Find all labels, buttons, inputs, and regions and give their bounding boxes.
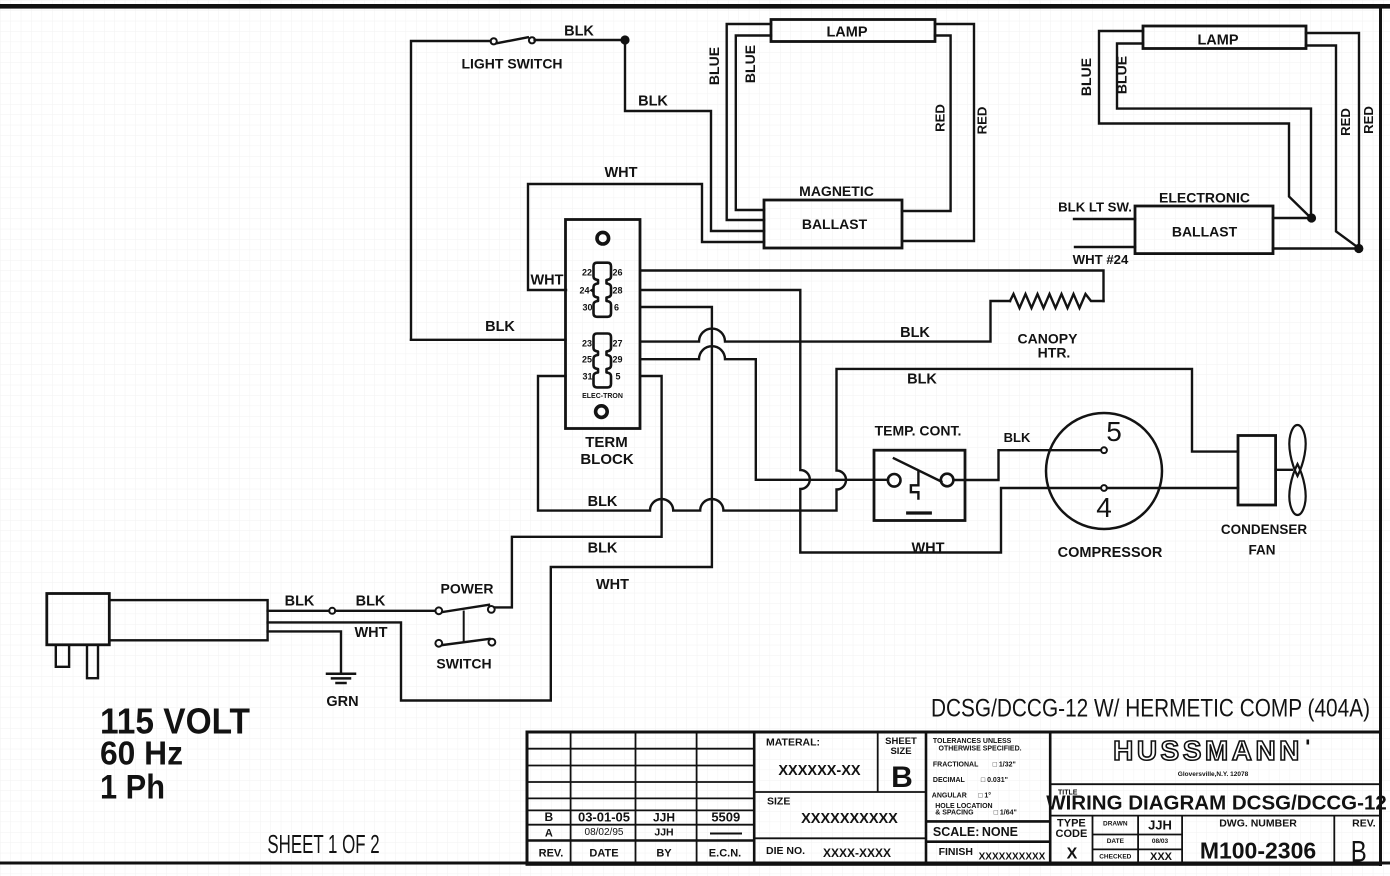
svg-text:BLK: BLK: [638, 94, 668, 110]
svg-text:4: 4: [1096, 492, 1112, 523]
wire electronic ballast to blue junction: [1273, 217, 1312, 219]
svg-text:WIRING DIAGRAM DCSG/DCCG-12: WIRING DIAGRAM DCSG/DCCG-12: [1046, 792, 1387, 815]
svg-text:OTHERWISE SPECIFIED.: OTHERWISE SPECIFIED.: [939, 746, 1022, 753]
compressor pin 5 terminal: [1101, 447, 1107, 453]
svg-text:FAN: FAN: [1249, 543, 1276, 558]
svg-text:SCALE:: SCALE:: [933, 825, 980, 839]
svg-text:27: 27: [613, 338, 623, 348]
term block pin 24 arrow: [589, 288, 593, 293]
power plug prong 2: [87, 645, 98, 678]
wire RED outer lamp L1 to ballast: [902, 24, 974, 241]
compressor pin 4 terminal: [1101, 485, 1107, 491]
node junction dot red: [1354, 244, 1363, 253]
svg-text:60 Hz: 60 Hz: [100, 735, 183, 772]
svg-text:HUSSMANN: HUSSMANN: [1113, 735, 1303, 766]
svg-text:BLK: BLK: [900, 325, 930, 341]
wire pin 5 down BLK to power switch: [495, 376, 661, 607]
svg-text:ELEC-TRON: ELEC-TRON: [582, 393, 623, 400]
power switch blade upper: [443, 605, 490, 612]
svg-text:MAGNETIC: MAGNETIC: [799, 183, 874, 199]
power cord body: [109, 600, 267, 640]
hussmann title boxes: [1050, 783, 1380, 785]
svg-text:BLK: BLK: [564, 24, 594, 40]
svg-text:03-01-05: 03-01-05: [578, 810, 630, 825]
svg-text:RED: RED: [1338, 108, 1353, 136]
svg-text:B: B: [891, 761, 913, 794]
term block mounting hole bottom: [596, 406, 608, 418]
svg-text:DATE: DATE: [589, 848, 618, 860]
wire BLK pin 31 loop to condenser fan: [538, 369, 1238, 511]
svg-text:B: B: [544, 810, 553, 824]
wire electronic ballast to red junction: [1273, 247, 1359, 249]
svg-text:DECIMAL: DECIMAL: [933, 777, 966, 784]
svg-text:RED: RED: [1361, 106, 1376, 134]
wire BLUE inner lamp L2: [1117, 44, 1311, 219]
term block box: [566, 220, 641, 429]
svg-text:5509: 5509: [711, 810, 740, 825]
condenser fan box: [1238, 436, 1276, 506]
svg-text:□ 1/64": □ 1/64": [994, 810, 1017, 817]
svg-text:□ 0.031": □ 0.031": [981, 777, 1008, 784]
svg-text:REV.: REV.: [539, 848, 564, 860]
svg-text:ANGULAR: ANGULAR: [932, 793, 967, 800]
frame bottom border: [0, 862, 1390, 865]
svg-text:1 Ph: 1 Ph: [100, 769, 165, 807]
svg-text:BLK: BLK: [588, 541, 618, 557]
term block pin numbers: [579, 267, 622, 381]
svg-text:TOLERANCES UNLESS: TOLERANCES UNLESS: [933, 738, 1012, 745]
svg-text:LAMP: LAMP: [826, 25, 867, 41]
term block connector upper: [594, 263, 612, 317]
material size die boxes: [877, 732, 879, 792]
svg-text:FRACTIONAL: FRACTIONAL: [933, 761, 979, 768]
svg-text:POWER: POWER: [441, 581, 494, 597]
svg-text:DRAWN: DRAWN: [1103, 821, 1128, 828]
svg-text:DWG. NUMBER: DWG. NUMBER: [1219, 818, 1297, 830]
svg-text:22: 22: [582, 267, 592, 277]
svg-text:MATERAL:: MATERAL:: [766, 737, 820, 749]
svg-text:REV.: REV.: [1352, 818, 1376, 830]
wire BLK temp control to compressor pin 5: [954, 450, 1101, 480]
svg-text:CODE: CODE: [1056, 828, 1088, 840]
frame right border: [1379, 6, 1382, 866]
node junction dot blue: [1307, 213, 1316, 222]
svg-text:□ 1°: □ 1°: [978, 792, 991, 800]
svg-text:TERM: TERM: [585, 434, 628, 451]
svg-text:DIE NO.: DIE NO.: [766, 845, 805, 857]
svg-text:DATE: DATE: [1107, 838, 1125, 845]
svg-text:TEMP. CONT.: TEMP. CONT.: [875, 423, 962, 439]
compressor circle: [1046, 413, 1162, 529]
wire BLUE outer lamp L2: [1099, 31, 1311, 218]
svg-text:JJH: JJH: [653, 811, 675, 825]
svg-text:BLUE: BLUE: [742, 45, 758, 83]
svg-text:XXX: XXX: [1150, 851, 1173, 863]
svg-text:GRN: GRN: [326, 694, 358, 710]
wire BLK cord to splice: [268, 610, 329, 612]
light switch S1 blade: [497, 37, 528, 43]
power switch contact upper left: [435, 607, 442, 614]
right lamp L2 box: [1143, 26, 1306, 49]
svg-text:CHECKED: CHECKED: [1099, 854, 1131, 861]
temp control thermal element: [911, 472, 919, 499]
svg-text:E.C.N.: E.C.N.: [709, 848, 741, 860]
wire BLUE inner lamp L1 to ballast: [736, 36, 771, 211]
svg-text:BLK: BLK: [1004, 430, 1031, 445]
svg-text:NONE: NONE: [982, 825, 1018, 839]
svg-text:6: 6: [614, 303, 619, 313]
svg-text:24: 24: [579, 285, 589, 295]
node junction dot BLK: [620, 35, 629, 44]
power switch linkage: [463, 612, 465, 643]
svg-text:BLK: BLK: [907, 372, 937, 388]
temp control contact left: [888, 474, 901, 487]
wire pin 6 down WHT to power switch area: [268, 307, 712, 701]
wire compressor pin 4 to condenser fan: [1107, 487, 1238, 489]
revision table rows: [527, 748, 754, 750]
svg-text:SIZE: SIZE: [890, 746, 911, 757]
svg-text:BY: BY: [656, 848, 672, 860]
electronic ballast box: [1135, 206, 1273, 254]
wire stub WHT #24: [1075, 246, 1135, 248]
wire WHT pin 28 down to compressor pin 4: [641, 290, 1101, 553]
svg-text:JJH: JJH: [654, 827, 673, 839]
wire pin 26 to canopy heater right lead: [641, 271, 1104, 302]
svg-text:WHT: WHT: [596, 577, 629, 593]
term block mounting hole top: [597, 232, 609, 244]
magnetic ballast box: [764, 200, 902, 248]
wire BLK splice to power switch: [335, 610, 435, 612]
wire BLK pin 27 to canopy heater left lead: [641, 301, 1011, 342]
svg-text:& SPACING: & SPACING: [935, 810, 974, 817]
wire GRN cord to ground: [268, 631, 341, 672]
svg-text:08/03: 08/03: [1152, 838, 1169, 845]
light switch S1 contact right: [529, 37, 535, 43]
condenser fan shaft: [1276, 469, 1292, 471]
svg-text:SWITCH: SWITCH: [436, 656, 491, 672]
lamp L1 box (magnetic): [771, 20, 935, 42]
svg-text:WHT: WHT: [911, 541, 944, 557]
wire RED inner lamp L2: [1306, 46, 1358, 248]
svg-text:08/02/95: 08/02/95: [585, 827, 624, 838]
power switch contact lower right: [489, 639, 496, 646]
canopy heater resistor: [1010, 294, 1104, 308]
svg-text:5: 5: [1106, 416, 1122, 447]
svg-text:WHT #24: WHT #24: [1073, 252, 1129, 267]
svg-text:COMPRESSOR: COMPRESSOR: [1058, 545, 1163, 561]
svg-text:26: 26: [613, 267, 623, 277]
svg-text:WHT: WHT: [530, 273, 563, 289]
svg-text:BLUE: BLUE: [1114, 56, 1130, 94]
condenser fan propeller: [1289, 425, 1305, 515]
wire BLK junction down to magnetic ballast: [625, 40, 764, 231]
temp control blade: [894, 458, 942, 481]
svg-text:JJH: JJH: [1148, 818, 1172, 833]
svg-text:BLUE: BLUE: [706, 47, 722, 85]
svg-text:WHT: WHT: [354, 625, 387, 641]
light switch S1 contact left: [491, 38, 497, 44]
svg-text:BALLAST: BALLAST: [802, 216, 868, 232]
wire RED outer lamp L2: [1306, 33, 1359, 249]
svg-text:BLK: BLK: [285, 594, 315, 610]
ground symbol: [327, 674, 355, 683]
svg-text:XXXXXXXXXX: XXXXXXXXXX: [801, 811, 898, 827]
svg-text:29: 29: [613, 355, 623, 365]
svg-text:BLK: BLK: [485, 319, 515, 335]
revision table columns: [570, 732, 572, 864]
temp control bottom bar: [908, 511, 931, 514]
svg-text:XXXXXXXXXX: XXXXXXXXXX: [979, 852, 1046, 863]
svg-text:BALLAST: BALLAST: [1172, 224, 1238, 240]
svg-text:31: 31: [582, 371, 592, 381]
temp control box: [874, 450, 965, 520]
power switch contact upper right: [488, 606, 495, 613]
svg-text:25: 25: [582, 355, 592, 365]
svg-text:M100-2306: M100-2306: [1200, 838, 1316, 864]
splice connector circle: [329, 608, 335, 614]
svg-text:HTR.: HTR.: [1038, 345, 1071, 361]
temp control contact right: [941, 474, 954, 487]
svg-text:CONDENSER: CONDENSER: [1221, 522, 1308, 537]
svg-text:RED: RED: [975, 107, 990, 135]
svg-text:SIZE: SIZE: [767, 796, 790, 808]
wire BLK left leg to term block pin 23: [411, 339, 566, 341]
svg-text:BLOCK: BLOCK: [580, 451, 633, 468]
svg-text:X: X: [1067, 846, 1078, 863]
power plug prong 1: [56, 645, 69, 667]
wire BLUE outer lamp L1 to ballast: [727, 24, 771, 220]
svg-text:28: 28: [613, 285, 623, 295]
svg-text:□ 1/32": □ 1/32": [993, 761, 1016, 768]
svg-text:BLK: BLK: [356, 594, 386, 610]
svg-text:LAMP: LAMP: [1197, 33, 1238, 49]
svg-text:Gloversville,N.Y. 12078: Gloversville,N.Y. 12078: [1178, 771, 1249, 778]
wire BLK feed from light switch left leg: [411, 41, 491, 340]
frame top border: [0, 4, 1390, 9]
tolerance scale finish boxes: [926, 820, 1050, 823]
svg-text:DCSG/DCCG-12 W/ HERMETIC COMP: DCSG/DCCG-12 W/ HERMETIC COMP (404A): [931, 694, 1370, 722]
title block table lines: [527, 732, 1381, 864]
svg-text:ELECTRONIC: ELECTRONIC: [1159, 190, 1250, 206]
term block connector lower: [594, 334, 612, 388]
svg-text:LIGHT SWITCH: LIGHT SWITCH: [461, 56, 562, 72]
svg-text:BLK: BLK: [588, 494, 618, 510]
svg-text:WHT: WHT: [604, 165, 637, 181]
power switch contact lower left: [435, 640, 442, 647]
svg-text:30: 30: [582, 303, 592, 313]
svg-text:RED: RED: [933, 104, 948, 132]
svg-text:5: 5: [616, 371, 621, 381]
wire stub BLK LT SW: [1074, 218, 1135, 220]
svg-text:XXXXXX-XX: XXXXXX-XX: [778, 763, 861, 779]
svg-text:XXXX-XXXX: XXXX-XXXX: [823, 846, 891, 860]
logo tick mark: [1307, 740, 1310, 745]
svg-text:A: A: [545, 828, 553, 840]
svg-text:B: B: [1351, 834, 1367, 868]
wire pin 29 down to temp control: [641, 346, 889, 480]
svg-text:FINISH: FINISH: [939, 846, 973, 858]
power switch blade lower: [443, 639, 490, 645]
power plug body: [47, 594, 110, 645]
svg-text:23: 23: [582, 338, 592, 348]
svg-text:SHEET 1 OF 2: SHEET 1 OF 2: [267, 829, 379, 859]
wire WHT term block pin 24 to magnetic ballast: [528, 184, 764, 290]
tolerance box text: [932, 738, 1022, 817]
svg-text:BLK LT SW.: BLK LT SW.: [1058, 200, 1132, 215]
wire BLK light switch to junction: [535, 39, 625, 41]
svg-text:BLUE: BLUE: [1078, 58, 1094, 96]
wire RED inner lamp L1 to ballast: [902, 36, 951, 212]
